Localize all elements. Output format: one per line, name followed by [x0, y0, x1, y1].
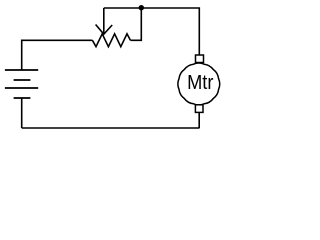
battery B1 long plate 2 [5, 87, 38, 89]
wire top-left L from battery to rheostat [22, 40, 93, 70]
wire battery bottom to bottom rail [21, 98, 23, 128]
battery B1 short plate 1 [14, 79, 31, 81]
motor M1 top brush terminal [196, 55, 204, 63]
wire motor bottom lead [198, 112, 200, 128]
rheostat wiper arrow shaft [103, 8, 105, 34]
motor M1 bottom brush terminal [195, 105, 203, 113]
svg-text:Mtr: Mtr [187, 71, 213, 94]
wire bottom rail [22, 127, 200, 129]
motor M1 scalloped body circle [178, 63, 220, 105]
rheostat wiper arrowhead [96, 25, 113, 35]
wire top from wiper to motor [104, 8, 200, 55]
wire rheostat right lead up to node [130, 8, 141, 40]
rheostat R1 zigzag body [92, 34, 130, 47]
battery B1 short plate 2 [14, 97, 31, 99]
battery B1 long plate 1 [5, 69, 38, 71]
junction dot node [139, 5, 144, 10]
